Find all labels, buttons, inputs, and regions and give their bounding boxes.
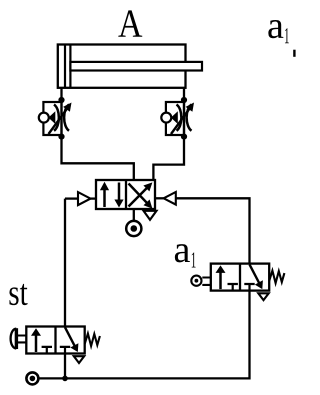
svg-text:a: a (267, 5, 284, 47)
svg-text:A: A (118, 1, 143, 46)
svg-text:1: 1 (284, 23, 290, 48)
svg-text:st: st (8, 273, 28, 314)
svg-text:1: 1 (191, 248, 197, 273)
svg-text:a: a (173, 229, 190, 271)
